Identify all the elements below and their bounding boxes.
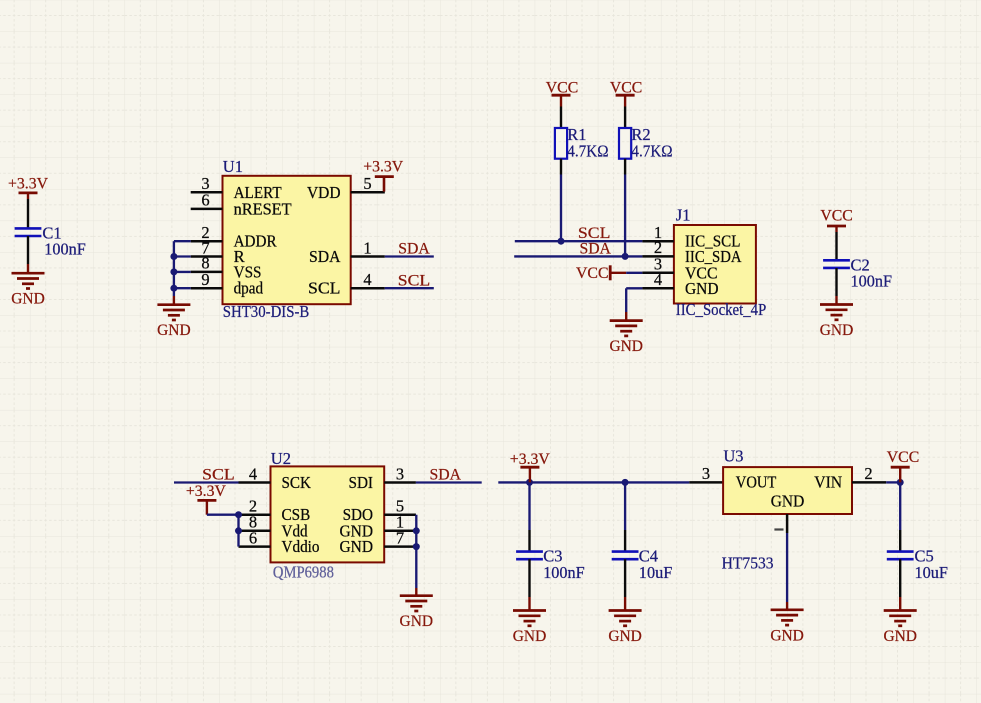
svg-text:SCK: SCK <box>282 473 312 492</box>
svg-text:10uF: 10uF <box>915 563 949 582</box>
svg-text:SDA: SDA <box>579 240 611 257</box>
svg-text:GND: GND <box>883 628 917 645</box>
svg-text:7: 7 <box>396 528 404 547</box>
svg-text:VCC: VCC <box>576 265 609 282</box>
svg-text:nRESET: nRESET <box>234 199 292 218</box>
svg-text:SDA: SDA <box>398 241 430 258</box>
svg-text:4.7KΩ: 4.7KΩ <box>631 141 672 160</box>
svg-text:100nF: 100nF <box>543 563 585 582</box>
svg-text:SDA: SDA <box>309 247 341 266</box>
svg-text:GND: GND <box>11 291 45 308</box>
svg-text:4.7KΩ: 4.7KΩ <box>567 141 608 160</box>
svg-text:GND: GND <box>608 628 642 645</box>
svg-text:6: 6 <box>249 528 257 547</box>
svg-text:U1: U1 <box>223 157 243 176</box>
svg-text:GND: GND <box>340 537 374 556</box>
svg-text:4: 4 <box>249 464 257 483</box>
svg-text:QMP6988: QMP6988 <box>273 563 334 582</box>
svg-text:SCL: SCL <box>202 466 235 483</box>
svg-text:SDI: SDI <box>349 473 374 492</box>
svg-text:+3.3V: +3.3V <box>510 451 550 468</box>
svg-text:3: 3 <box>396 464 404 483</box>
svg-text:100nF: 100nF <box>44 240 86 259</box>
svg-text:+3.3V: +3.3V <box>8 175 48 192</box>
svg-text:GND: GND <box>157 322 191 339</box>
svg-text:IIC_Socket_4P: IIC_Socket_4P <box>676 300 767 319</box>
svg-text:5: 5 <box>363 174 371 193</box>
svg-text:2: 2 <box>864 464 872 483</box>
svg-text:VCC: VCC <box>610 79 643 96</box>
svg-text:VDD: VDD <box>307 183 341 202</box>
svg-text:1: 1 <box>363 238 371 257</box>
svg-text:Vddio: Vddio <box>282 537 320 556</box>
svg-text:4: 4 <box>654 270 662 289</box>
svg-text:4: 4 <box>363 270 371 289</box>
svg-text:VIN: VIN <box>814 473 842 492</box>
svg-text:GND: GND <box>609 338 643 355</box>
svg-text:VCC: VCC <box>820 208 853 225</box>
svg-text:U3: U3 <box>723 447 743 466</box>
svg-text:GND: GND <box>771 492 805 511</box>
svg-text:SCL: SCL <box>398 272 431 289</box>
svg-text:100nF: 100nF <box>851 271 893 290</box>
svg-text:SCL: SCL <box>308 279 341 298</box>
svg-text:VCC: VCC <box>546 79 579 96</box>
svg-text:GND: GND <box>770 627 804 644</box>
svg-text:SHT30-DIS-B: SHT30-DIS-B <box>223 302 309 321</box>
svg-text:GND: GND <box>820 322 854 339</box>
svg-text:U2: U2 <box>271 449 291 468</box>
svg-text:GND: GND <box>400 613 434 630</box>
svg-text:SDA: SDA <box>430 466 462 483</box>
svg-text:HT7533: HT7533 <box>722 554 774 573</box>
svg-text:+3.3V: +3.3V <box>363 159 403 176</box>
svg-text:VOUT: VOUT <box>736 473 777 492</box>
svg-text:6: 6 <box>201 191 209 210</box>
svg-text:+3.3V: +3.3V <box>186 483 226 500</box>
svg-text:3: 3 <box>702 464 710 483</box>
svg-text:GND: GND <box>513 628 547 645</box>
svg-text:VCC: VCC <box>887 449 920 466</box>
svg-text:J1: J1 <box>676 206 691 225</box>
svg-text:dpad: dpad <box>234 279 264 298</box>
svg-text:10uF: 10uF <box>639 563 673 582</box>
svg-text:GND: GND <box>685 279 719 298</box>
svg-text:9: 9 <box>201 270 209 289</box>
